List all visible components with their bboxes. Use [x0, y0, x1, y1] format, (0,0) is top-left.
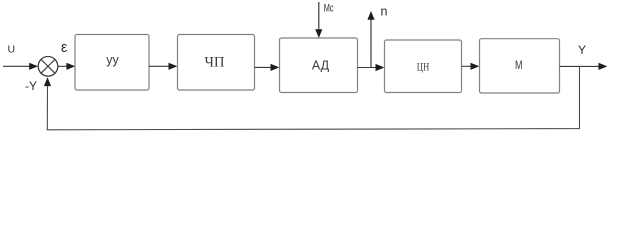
- wire: n output arrow (up from AD-TsN line): [367, 11, 374, 68]
- svg-text:U: U: [8, 44, 16, 56]
- svg-text:АД: АД: [312, 59, 330, 73]
- label U (input signal): [8, 44, 16, 56]
- summing junction (circle with X): [38, 57, 58, 77]
- block ChP (frequency converter): [178, 35, 255, 91]
- wire: ChP to AD: [255, 64, 280, 71]
- svg-text:n: n: [381, 4, 388, 18]
- wire: TsN to M: [462, 63, 480, 70]
- wire: feedback path (down, along bottom, up into summing junction): [44, 66, 580, 129]
- wire: M to output Y: [560, 63, 608, 70]
- block AD (asynchronous motor): [280, 38, 358, 93]
- svg-text:ЦН: ЦН: [417, 60, 430, 74]
- block M (pipeline/main): [480, 39, 560, 93]
- wire: input U into summing junction: [3, 63, 38, 70]
- wire: Mc disturbance arrow into AD (top): [315, 2, 322, 38]
- wire: summing junction to block UU: [58, 63, 75, 70]
- svg-text:Y: Y: [578, 43, 586, 57]
- block TsN (centrifugal pump): [385, 40, 462, 93]
- label -Y (feedback signal): [25, 79, 37, 93]
- svg-text:уу: уу: [106, 53, 119, 67]
- svg-text:-Y: -Y: [25, 79, 37, 93]
- label Mc (load torque): [324, 3, 334, 15]
- svg-text:Mc: Mc: [324, 3, 334, 15]
- wire: AD to TsN: [358, 64, 385, 71]
- block UU (control unit): [75, 35, 149, 91]
- wire: UU to ChP: [149, 63, 177, 70]
- svg-text:М: М: [515, 58, 523, 72]
- label epsilon (error signal): [61, 40, 68, 56]
- label n (rotation speed): [381, 4, 388, 18]
- svg-text:ЧП: ЧП: [205, 54, 225, 70]
- label Y (output signal): [578, 43, 586, 57]
- svg-text:ε: ε: [61, 40, 68, 56]
